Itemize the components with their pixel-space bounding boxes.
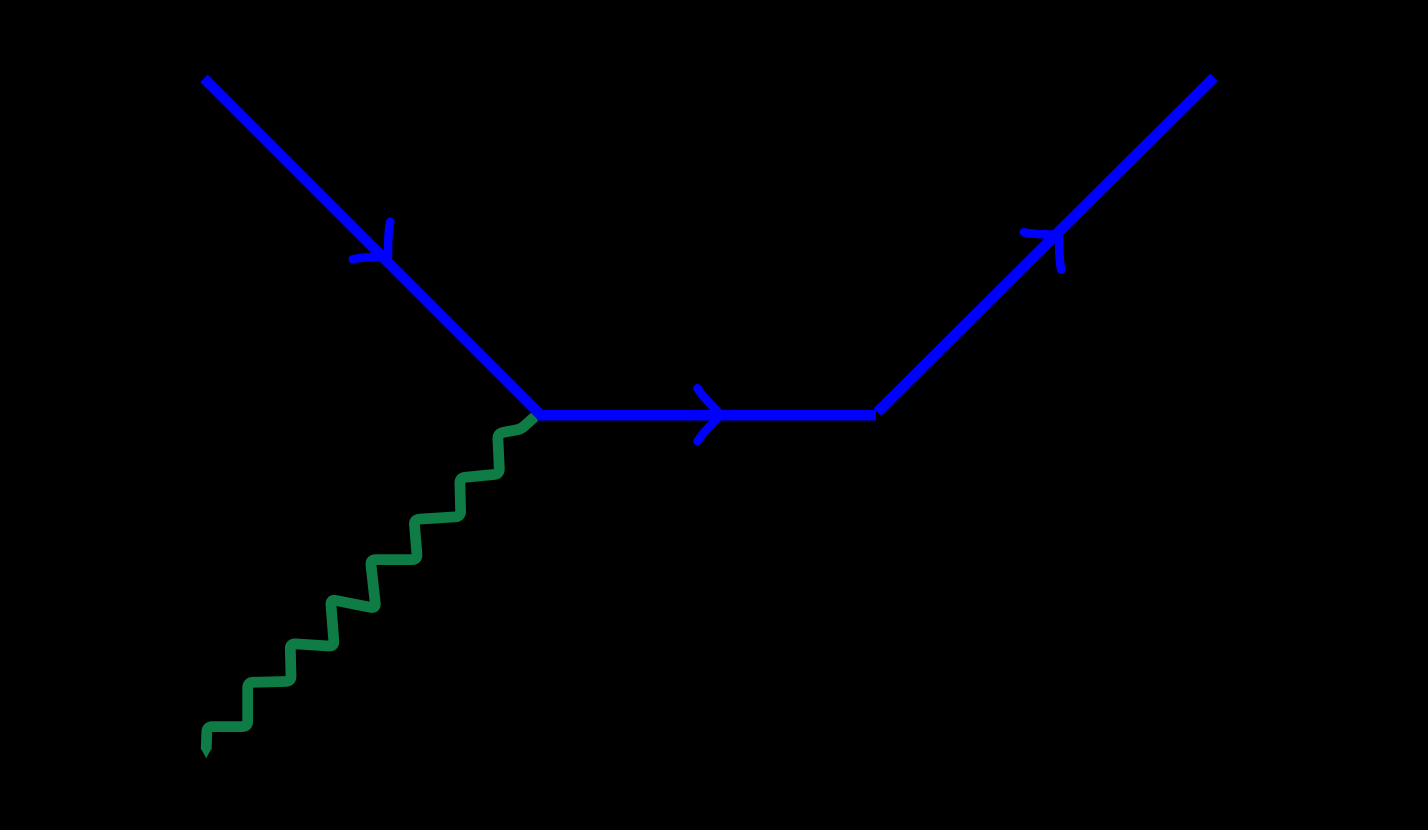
outgoing fermion line (vertex 2 to top-right) [878, 78, 1215, 413]
photon wavy line (green) [206, 412, 540, 750]
arrow on propagator [698, 388, 721, 441]
incoming fermion line (top-left to vertex 1) [204, 78, 541, 415]
arrow on incoming line [353, 222, 391, 259]
photon pointed tail tip [201, 749, 212, 759]
arrow on outgoing line [1024, 232, 1062, 270]
fermion propagator (horizontal) [537, 410, 876, 421]
